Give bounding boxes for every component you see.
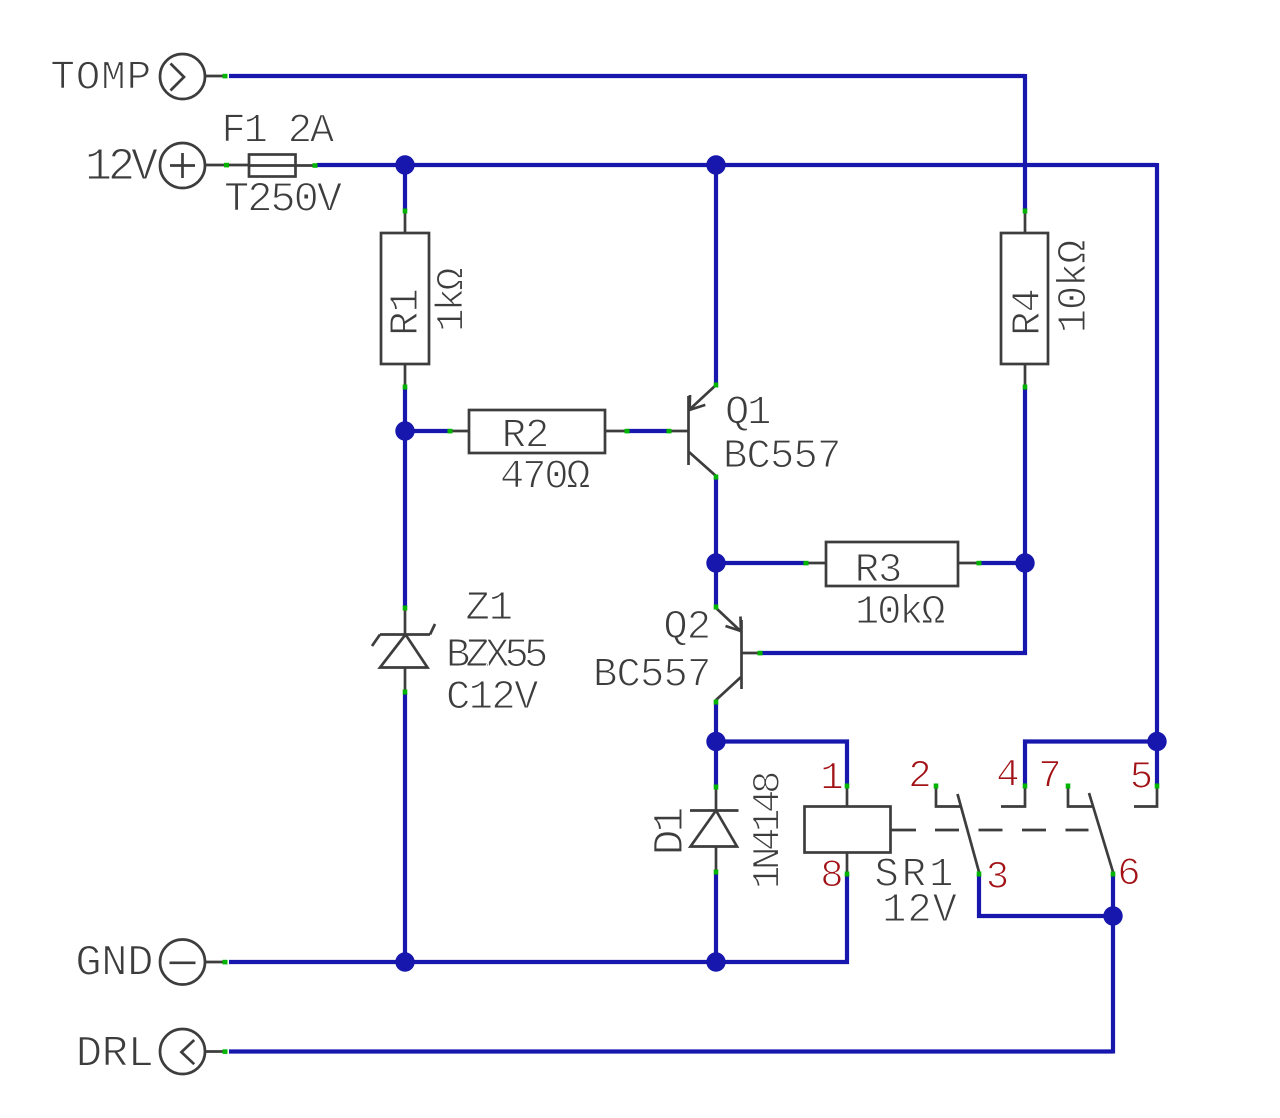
svg-text:7: 7 bbox=[1038, 755, 1061, 799]
resistor R2 bbox=[450, 410, 626, 501]
wire 12V rail to contact pin 4 bbox=[1025, 742, 1157, 786]
svg-text:BC557: BC557 bbox=[723, 434, 841, 480]
pin end contact pin3 bbox=[977, 872, 982, 877]
pin end Z1 top bbox=[403, 606, 408, 611]
svg-text:6: 6 bbox=[1117, 852, 1140, 896]
relay contact A pin 2 terminal bbox=[936, 787, 960, 807]
pin end 12V bbox=[224, 163, 229, 168]
wire contact pin 3 to node F bbox=[979, 874, 1113, 916]
pin end Q2 collector bbox=[714, 700, 719, 705]
svg-text:1N4148: 1N4148 bbox=[747, 773, 791, 889]
svg-text:1: 1 bbox=[820, 757, 843, 801]
wire 12V rail horizontal bbox=[317, 163, 1157, 167]
svg-text:8: 8 bbox=[820, 854, 843, 898]
connector 12V bbox=[85, 142, 249, 193]
wire GND rail bbox=[229, 960, 716, 964]
pin end Q2 emitter bbox=[714, 605, 719, 610]
svg-text:GND: GND bbox=[75, 939, 153, 989]
svg-text:2: 2 bbox=[908, 755, 931, 799]
connector TOMP bbox=[50, 54, 227, 102]
wire net TOMP horizontal bbox=[229, 74, 1025, 78]
wire Z1 bottom to GND rail bbox=[403, 693, 407, 962]
svg-text:BZX55: BZX55 bbox=[446, 633, 546, 679]
pin end R3 right bbox=[977, 561, 982, 566]
wire relay pin 8 to GND rail bbox=[714, 874, 847, 962]
connector GND bbox=[75, 939, 227, 989]
svg-text:3: 3 bbox=[986, 856, 1009, 900]
wire node C to R3 bbox=[716, 561, 804, 565]
wire node B to R2 bbox=[405, 429, 449, 433]
pin end R1 top bbox=[403, 209, 408, 214]
junction node C Q1/R3/Q2 bbox=[706, 553, 725, 572]
resistor R1 bbox=[381, 210, 475, 387]
wire 12V rail to contact pin 5 bbox=[1155, 742, 1159, 786]
pin end contact pin2 bbox=[934, 784, 939, 789]
wire 12V rail right vertical bbox=[1155, 163, 1159, 742]
svg-text:470Ω: 470Ω bbox=[500, 455, 590, 501]
pin end contact pin6 bbox=[1111, 872, 1116, 877]
svg-text:1kΩ: 1kΩ bbox=[431, 268, 475, 332]
transistor Q1 BC557 bbox=[669, 385, 841, 480]
svg-text:10kΩ: 10kΩ bbox=[1052, 240, 1098, 333]
resistor R3 bbox=[806, 542, 978, 636]
wire net DRL horizontal bbox=[229, 1049, 1113, 1053]
diode D1 1N4148 bbox=[646, 773, 791, 889]
relay coil-contact link dashed bbox=[935, 829, 1089, 832]
pin end R1 bottom bbox=[403, 385, 408, 390]
junction node D R3/R4/Q2 base bbox=[1015, 553, 1034, 572]
pin end Q1 collector bbox=[714, 475, 719, 480]
relay contact B blade pins 6-7 bbox=[1089, 793, 1113, 872]
pin end contact pin7 bbox=[1066, 784, 1071, 789]
pin end TOMP bbox=[223, 74, 228, 79]
svg-text:12V: 12V bbox=[882, 888, 958, 934]
svg-text:BC557: BC557 bbox=[593, 653, 711, 699]
svg-text:R4: R4 bbox=[1006, 289, 1052, 336]
wire Q1 emitter to 12V rail bbox=[714, 165, 718, 383]
wire R3 right to node D bbox=[980, 561, 1025, 565]
pin end SR1 pin1 bbox=[845, 784, 850, 789]
resistor R4 bbox=[1001, 210, 1098, 387]
pin end DRL bbox=[223, 1049, 228, 1054]
relay SR1 coil bbox=[805, 787, 959, 934]
svg-text:Q2: Q2 bbox=[663, 605, 710, 651]
svg-text:R2: R2 bbox=[502, 414, 549, 460]
wire D1 top bbox=[714, 742, 718, 786]
pin end GND bbox=[223, 960, 228, 965]
wire R1 top bbox=[403, 165, 407, 210]
pin end Z1 bottom bbox=[403, 690, 408, 695]
svg-text:DRL: DRL bbox=[76, 1030, 154, 1080]
junction GND/D1 bbox=[706, 952, 725, 971]
pin end R2 left bbox=[448, 429, 453, 434]
wire contact pin 6 to node F bbox=[1111, 874, 1115, 916]
svg-text:5: 5 bbox=[1130, 756, 1153, 800]
wire node D down to Q2 base bbox=[759, 563, 1025, 653]
junction node B R1/R2/Z1 bbox=[395, 421, 414, 440]
wire node F down to DRL bbox=[1111, 916, 1115, 1054]
relay contact A blade pins 3-2 bbox=[958, 794, 980, 872]
pin end R4 bottom bbox=[1023, 385, 1028, 390]
junction 12V/R1 bbox=[395, 155, 414, 174]
pin end R2 right bbox=[625, 429, 630, 434]
svg-text:T250V: T250V bbox=[224, 176, 342, 224]
pin end R4 top bbox=[1023, 209, 1028, 214]
svg-text:TOMP: TOMP bbox=[50, 56, 152, 102]
pin end D1 top bbox=[714, 785, 719, 790]
junction 12V/Q1 emitter bbox=[706, 155, 725, 174]
transistor Q2 BC557 bbox=[593, 605, 758, 700]
relay contact B pin 7 terminal bbox=[1068, 787, 1092, 807]
svg-text:Q1: Q1 bbox=[725, 391, 770, 437]
wire R4 bottom to node D bbox=[1023, 388, 1027, 563]
fuse F1 bbox=[222, 109, 342, 224]
junction 12V/contacts 4+5 bbox=[1147, 732, 1166, 751]
pin end R3 left bbox=[804, 561, 809, 566]
junction node F pins 3+6/DRL bbox=[1103, 906, 1122, 925]
svg-text:4: 4 bbox=[996, 754, 1019, 798]
wire node C to Q2 emitter bbox=[714, 563, 718, 605]
svg-text:F1 2A: F1 2A bbox=[222, 109, 335, 155]
pin end F1 right bbox=[313, 163, 318, 168]
wire Q1 collector to node C bbox=[714, 477, 718, 563]
wire node E to relay pin 1 bbox=[714, 742, 847, 786]
relay contact A pin 4 terminal bbox=[1001, 787, 1025, 807]
svg-text:C12V: C12V bbox=[446, 675, 539, 721]
svg-text:Z1: Z1 bbox=[466, 586, 513, 632]
wire R2 to Q1 base bbox=[627, 429, 668, 433]
svg-text:D1: D1 bbox=[646, 809, 695, 856]
pin end Q2 base bbox=[758, 651, 763, 656]
pin end Q1 emitter bbox=[714, 383, 719, 388]
relay contact B pin 5 terminal bbox=[1134, 787, 1157, 807]
wire Q2 collector to node E bbox=[714, 701, 718, 743]
pin end Q1 base bbox=[667, 429, 672, 434]
svg-text:12V: 12V bbox=[85, 142, 158, 193]
pin end SR1 pin8 bbox=[845, 872, 850, 877]
pin end contact pin4 bbox=[1023, 784, 1028, 789]
connector DRL bbox=[76, 1029, 227, 1080]
wire D1 bottom to GND rail bbox=[714, 874, 718, 962]
pin end contact pin5 bbox=[1155, 784, 1160, 789]
wire net TOMP vertical down to R4 bbox=[1023, 74, 1027, 210]
svg-text:R3: R3 bbox=[855, 548, 902, 594]
wire R1 bottom to node B bbox=[403, 387, 407, 607]
pin end D1 bottom bbox=[714, 870, 719, 875]
svg-text:R1: R1 bbox=[384, 289, 430, 336]
junction node E Q2 collector/D1/relay bbox=[706, 732, 725, 751]
svg-text:10kΩ: 10kΩ bbox=[855, 590, 945, 636]
zener diode Z1 bbox=[372, 586, 546, 721]
junction GND/Z1 bbox=[395, 952, 414, 971]
